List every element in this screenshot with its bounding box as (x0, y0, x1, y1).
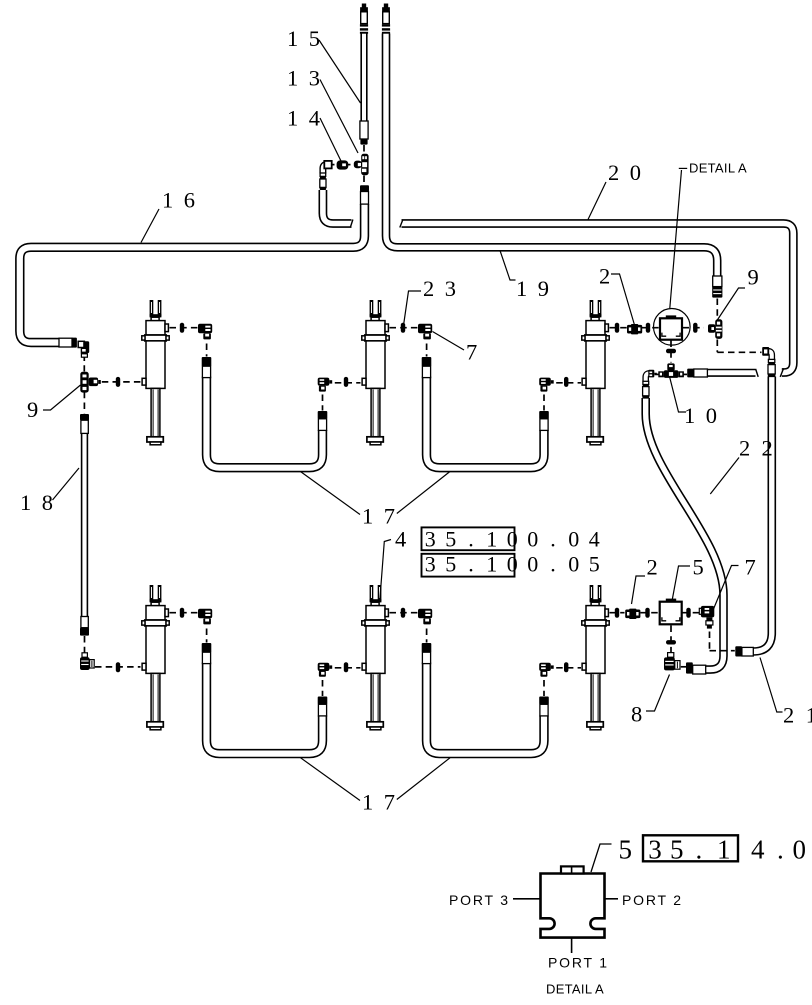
svg-text:5: 5 (693, 555, 715, 580)
union fitting 2 (bottom row) (625, 609, 640, 619)
wire (dashed connection) (683, 373, 687, 375)
wire (dashed connection) (681, 666, 686, 668)
hose 19 (from top centre to right bend) (386, 34, 717, 278)
sleeve fitting on dashed line (564, 377, 568, 387)
part number box 35.1_4.0 (detail A) (643, 835, 738, 861)
wire (dashed connection) (655, 373, 660, 375)
wire (dashed connection) (390, 327, 419, 329)
wire (dashed connection) (102, 381, 141, 383)
leader 9 (716, 288, 745, 322)
union fitting 2 (top row) (627, 324, 642, 334)
wire (dashed connection) (556, 382, 581, 384)
leader 23 (404, 291, 422, 326)
leader 21 (760, 658, 783, 713)
hose 15 (top vertical hose) (360, 34, 367, 123)
elbow fitting 7 at cylinder 1 top port (198, 324, 212, 340)
svg-text:35.100.04: 35.100.04 (425, 526, 600, 551)
wire (dashed connection) (642, 327, 660, 329)
svg-text:PORT 1: PORT 1 (548, 955, 609, 971)
sleeve fitting on dashed line (666, 640, 676, 644)
svg-text:DETAIL A: DETAIL A (546, 982, 604, 997)
tee fitting 10 (658, 363, 684, 378)
hydraulic cylinder top middle (362, 300, 389, 445)
wire (dashed connection) (95, 666, 141, 668)
hydraulic cylinder bottom right (582, 585, 609, 730)
tee fitting 13 (top centre) (354, 154, 369, 175)
wire (dashed connection) (426, 344, 428, 357)
sleeve fitting on dashed line (180, 608, 184, 618)
svg-text:35.100.05: 35.100.05 (425, 552, 600, 577)
wire (dashed connection) (84, 636, 86, 653)
svg-text:23: 23 (423, 276, 467, 301)
wire (dashed connection) (709, 632, 711, 651)
wire (dashed connection) (716, 299, 718, 319)
detail A valve block outline (541, 874, 605, 938)
svg-text:16: 16 (162, 188, 206, 213)
wire (dashed connection) (683, 327, 705, 329)
leader 20 (588, 182, 606, 220)
wire (dashed connection) (543, 680, 545, 696)
tee fitting 9 (left) (80, 372, 100, 393)
svg-text:PORT 2: PORT 2 (622, 892, 683, 908)
leaders 17 bottom (301, 758, 360, 801)
hydraulic cylinder bottom left (142, 585, 169, 730)
part number box 35.100.05 (422, 554, 515, 577)
wire (dashed connection) (83, 392, 85, 414)
elbow fitting 7 at cylinder 2 top port (418, 324, 432, 340)
wire (dashed connection) (363, 145, 365, 152)
sleeve fitting on dashed line (564, 662, 568, 672)
svg-text:8: 8 (631, 702, 653, 727)
hydraulic cylinder top right (582, 300, 609, 445)
wire (dashed connection) (610, 327, 628, 329)
top cap fitting of hose at x=386 (382, 4, 390, 34)
leader 10 (670, 377, 687, 413)
wire (dashed connection) (206, 629, 208, 643)
hose 20 top elbow fitting (item near 14) (323, 165, 330, 174)
leader 5 detail (591, 844, 612, 872)
elbow fitting at top-row U-hose 1 right leg (318, 378, 332, 392)
elbow fitting at end of hose 16 above tee 9 (78, 341, 84, 347)
wire (dashed connection) (556, 667, 581, 669)
svg-text:10: 10 (684, 403, 728, 428)
elbow fitting 7 at bottom cylinder 2 top port (418, 609, 432, 625)
elbow fitting at top of hose 21 (766, 351, 772, 359)
detail A circle (654, 309, 691, 346)
leader 7 (433, 332, 465, 351)
leader 7 bottom (713, 566, 738, 610)
leader 13 (320, 80, 358, 154)
wire (dashed connection) (335, 667, 361, 669)
hose 22 (S-curved hose) (646, 398, 724, 670)
sleeve fitting on dashed line (116, 377, 120, 387)
svg-text:17: 17 (362, 790, 406, 815)
leader 18 (53, 468, 80, 500)
wire (dashed connection) (170, 612, 199, 614)
leader 4 (380, 540, 391, 601)
sleeve fitting on dashed line (645, 608, 649, 618)
svg-text:20: 20 (608, 160, 652, 185)
leader 15 (319, 40, 361, 103)
svg-text:5: 5 (619, 835, 643, 865)
sleeve fitting on dashed line (344, 377, 348, 387)
U-shaped hose 17 (bottom row right) (427, 663, 545, 754)
sleeve fitting on dashed line (686, 608, 690, 618)
svg-text:2: 2 (647, 555, 669, 580)
part number box 35.100.04 (422, 527, 515, 550)
wire (dashed connection) (670, 626, 672, 657)
wire (dashed connection) (670, 341, 672, 363)
leader 2 bottom (632, 576, 646, 604)
sleeve fitting on dashed line (693, 323, 697, 333)
sleeve fitting on dashed line (116, 662, 120, 672)
wire (dashed connection) (322, 680, 324, 696)
svg-text:22: 22 (739, 436, 784, 461)
hose 21 (far right vertical hose) (753, 377, 772, 652)
wire (dashed connection) (335, 382, 361, 384)
sleeve fitting on dashed line (401, 608, 405, 618)
leaders 17 top (301, 472, 360, 515)
fitting 9 (right, below hose 19) (708, 319, 722, 339)
sleeve fitting on dashed line (615, 323, 619, 333)
wire (dashed connection) (543, 395, 545, 411)
wire (dashed connection) (717, 351, 761, 353)
hose 18 (left vertical hose) (81, 433, 88, 617)
wire (dashed connection) (331, 164, 334, 166)
sleeve fitting on dashed line (180, 323, 184, 333)
wire (dashed connection) (363, 176, 365, 185)
wire (dashed connection) (716, 340, 718, 353)
leader 5 bottom (672, 566, 690, 601)
leader 14 (320, 118, 341, 161)
svg-text:DETAIL A: DETAIL A (689, 161, 747, 176)
wire (dashed connection) (348, 164, 351, 166)
svg-text:17: 17 (362, 504, 406, 529)
hydraulic cylinder top left (142, 300, 169, 445)
leader 8 (646, 675, 670, 712)
svg-text:4: 4 (395, 527, 417, 552)
wire (dashed connection) (83, 355, 85, 372)
wire (dashed connection) (426, 629, 428, 643)
elbow fitting at bottom-row U-hose 1 right leg (318, 663, 332, 677)
hose 16 (long C-shaped hose, top left) (20, 204, 365, 343)
detail A valve top tab (561, 866, 584, 873)
svg-text:7: 7 (466, 340, 488, 365)
wire (dashed connection) (610, 612, 625, 614)
leader 2 (611, 274, 635, 325)
wire (dashed connection) (170, 327, 199, 329)
leader DETAIL A (679, 167, 687, 169)
U-shaped hose 17 (top row left) (207, 377, 323, 468)
sleeve fitting on dashed line (344, 662, 348, 672)
elbow fitting at top of hose 22 (left of tee 10) (646, 373, 651, 381)
svg-text:7: 7 (745, 555, 767, 580)
elbow fitting at top-row U-hose 2 right leg (539, 378, 554, 392)
svg-text:21: 21 (783, 703, 812, 728)
U-shaped hose 17 (bottom row left) (207, 663, 323, 754)
svg-text:19: 19 (516, 276, 560, 301)
hydraulic cylinder bottom middle (362, 585, 389, 730)
wire (dashed connection) (710, 650, 735, 652)
svg-text:PORT 3: PORT 3 (449, 892, 510, 908)
top cap fitting of hose at x=364 (360, 4, 368, 34)
wire (dashed connection) (390, 612, 419, 614)
wire (dashed connection) (641, 612, 660, 614)
wire (dashed connection) (682, 612, 700, 614)
U-shaped hose 17 (top row right) (427, 377, 545, 468)
connector fitting 14 (337, 160, 349, 169)
sleeve fitting on dashed line (666, 349, 676, 353)
sleeve fitting on dashed line (615, 608, 619, 618)
svg-text:35.14.0: 35.14.0 (648, 834, 806, 864)
wire (dashed connection) (322, 395, 324, 411)
wire (dashed connection) (206, 344, 208, 357)
sleeve fitting on dashed line (401, 323, 405, 333)
elbow fitting 7 at bottom cylinder 1 top port (198, 609, 212, 625)
elbow fitting at bottom of hose 18 (80, 653, 94, 670)
valve block 5 (bottom) (660, 602, 682, 625)
elbow fitting 8 (664, 653, 680, 671)
hose 16 top ferrule below tee 13 (360, 185, 369, 191)
leader 9 left (43, 385, 81, 410)
valve block in detail A circle (660, 318, 682, 339)
svg-text:9: 9 (748, 265, 770, 290)
elbow fitting 7 (right of bottom valve) (699, 606, 714, 629)
hose 20 (upper hose to far right) (323, 190, 352, 224)
leader 22 (710, 458, 739, 495)
svg-text:2: 2 (599, 264, 621, 289)
leader 16 (141, 209, 159, 243)
straight hose right of tee 10 (694, 369, 756, 377)
leader 19 (500, 251, 516, 281)
elbow fitting at bottom-row U-hose 2 right leg (539, 663, 554, 677)
sleeve fitting on dashed line (646, 323, 650, 333)
